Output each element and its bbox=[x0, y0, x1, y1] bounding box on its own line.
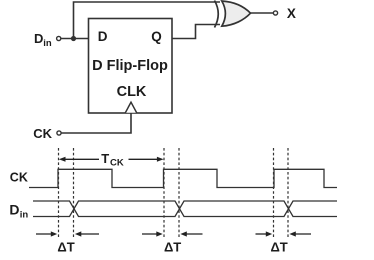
node X output terminal bbox=[273, 11, 277, 15]
clock edge triangle bbox=[125, 102, 136, 113]
xor gate U2 input arc bbox=[215, 1, 219, 28]
waveform Din bus upper trace bbox=[33, 201, 337, 217]
dimension arrow dT3 bbox=[256, 233, 269, 235]
wire: feedback from Din node to XOR top input bbox=[74, 2, 221, 39]
node CK input terminal bbox=[57, 131, 61, 135]
wire: Din terminal to D pin bbox=[61, 38, 89, 40]
waveform CK bbox=[29, 169, 337, 187]
svg-text:ΔT: ΔT bbox=[57, 239, 74, 254]
flip-flop U1 body bbox=[89, 19, 173, 114]
svg-text:D: D bbox=[9, 202, 19, 218]
svg-text:CLK: CLK bbox=[117, 84, 147, 100]
dimension arrow TCK left bbox=[59, 157, 164, 162]
svg-text:CK: CK bbox=[110, 158, 124, 169]
xor gate U2 body bbox=[222, 1, 251, 26]
dimension arrow dT2 bbox=[142, 233, 159, 235]
svg-text:D: D bbox=[98, 29, 108, 44]
svg-text:X: X bbox=[287, 6, 296, 21]
svg-text:in: in bbox=[20, 209, 29, 220]
node Din input terminal bbox=[57, 36, 61, 40]
svg-text:ΔT: ΔT bbox=[270, 239, 287, 254]
waveform Din bus lower trace bbox=[33, 201, 337, 217]
wire: XOR output to X terminal bbox=[251, 12, 274, 14]
svg-text:D Flip-Flop: D Flip-Flop bbox=[92, 58, 168, 74]
svg-text:in: in bbox=[43, 38, 52, 49]
svg-text:CK: CK bbox=[33, 126, 52, 141]
dimension arrow TCK right bbox=[129, 158, 162, 160]
svg-text:CK: CK bbox=[10, 171, 28, 185]
node junction dot on Din wire bbox=[71, 36, 76, 41]
svg-text:D: D bbox=[34, 31, 43, 46]
dashed marker line pair 2 bbox=[163, 148, 165, 239]
dashed marker line pair 3 bbox=[273, 148, 275, 239]
dimension arrow dT1 bbox=[36, 231, 311, 236]
wire: Q output to XOR bottom input bbox=[172, 25, 220, 39]
wire: CK terminal to CLK pin bbox=[61, 113, 131, 133]
svg-text:Q: Q bbox=[151, 29, 162, 44]
dashed marker line pair 1 bbox=[59, 148, 289, 239]
svg-text:T: T bbox=[101, 151, 109, 166]
svg-text:ΔT: ΔT bbox=[164, 239, 181, 254]
